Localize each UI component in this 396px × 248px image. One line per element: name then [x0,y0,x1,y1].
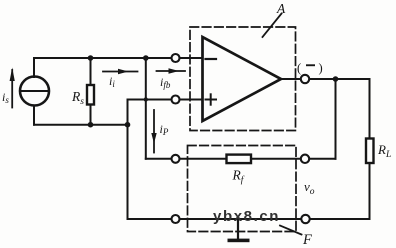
svg-text:Rf: Rf [232,168,245,186]
wire source bottom horizontal [34,124,128,126]
wire bottom right horizontal [310,218,370,220]
resistor Rf right wire [251,158,301,160]
wire source bottom stub [33,106,35,125]
wire vertical mid from top wire to feedback branch [145,58,147,159]
amplifier dashed box A [190,27,296,131]
wire bottom left horizontal [128,218,177,220]
terminal minus input [172,54,180,62]
ground bar [228,239,250,243]
wire left vertical to ground rail [127,100,129,220]
wire top horizontal from source to inverting input [34,57,176,59]
node dot Rs top [88,55,94,61]
current source bar [20,90,49,92]
terminal Rf left [172,155,180,163]
label output gain (-) [297,61,323,75]
wire noninverting stub into op-amp [180,99,203,101]
terminal output [301,75,309,83]
wire noninverting input horizontal [128,99,177,101]
current source Is circle [20,77,49,106]
arrow ifb [157,68,186,73]
node dot output junction [333,76,339,82]
svg-text:vo: vo [304,179,315,197]
resistor Rs stub top [90,58,92,85]
arrow ip [151,110,156,153]
svg-text:ii: ii [109,74,115,89]
resistor Rs stub bottom [90,105,92,125]
op-amp minus sign [206,58,217,60]
wire feedback right link horizontal [309,158,336,160]
svg-text:iP: iP [160,122,169,137]
resistor Rf body [227,155,252,164]
svg-text:is: is [2,90,9,105]
node dot cross junction [144,97,148,101]
wire feedback right link vertical [335,79,337,159]
svg-text:(: ( [297,61,301,75]
wire inverting stub into op-amp [180,57,203,59]
label F leader line [280,226,302,235]
op-amp A triangle [203,37,282,121]
feedback dashed box F [188,146,297,232]
op-amp plus sign [206,94,217,104]
node dot Rs bottom [88,122,94,128]
wire bottom middle horizontal [180,218,302,220]
terminal plus input [172,96,180,104]
svg-text:RL: RL [377,142,391,160]
wire source top stub [33,58,35,77]
resistor RL body [366,139,374,164]
svg-text:A: A [276,1,286,16]
terminal bottom left [172,215,180,223]
terminal bottom right [301,215,309,223]
node dot top junction [143,55,149,61]
ground stem [237,219,239,239]
svg-text:ifb: ifb [160,75,171,90]
terminal Rf right [301,155,309,163]
svg-text:Rs: Rs [71,89,84,107]
node dot left vertical [125,122,131,128]
wire output to right corner [309,78,370,80]
svg-text:F: F [302,232,312,248]
svg-text:): ) [319,61,323,75]
resistor Rs body [87,85,94,105]
wire to Rf left terminal [146,158,176,160]
wire right vertical down to RL [369,79,371,139]
label A leader line [263,14,282,38]
wire RL bottom to bottom rail [369,163,371,219]
arrow ii [103,69,138,74]
arrow is [10,68,15,108]
svg-text:ybx8.cn: ybx8.cn [213,208,280,225]
wire op-amp output stub [281,78,301,80]
resistor Rf left wire [180,158,227,160]
